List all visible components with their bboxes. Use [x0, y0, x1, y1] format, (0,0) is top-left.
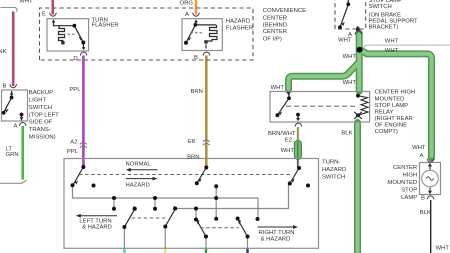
svg-text:CENTER HIGH: CENTER HIGH	[375, 90, 416, 96]
wire ORG (turn flasher E)	[51, 0, 54, 15]
svg-text:RIGHT TURN: RIGHT TURN	[258, 230, 294, 236]
svg-text:HAZARD: HAZARD	[126, 183, 150, 189]
svg-text:CENTER: CENTER	[263, 29, 287, 35]
backup light switch box	[2, 90, 28, 121]
svg-text:BRACKET): BRACKET)	[369, 24, 399, 30]
svg-text:BLK: BLK	[420, 210, 431, 216]
svg-text:OF ENGINE: OF ENGINE	[375, 123, 407, 129]
svg-text:B: B	[194, 55, 198, 61]
svg-text:A2: A2	[70, 140, 77, 146]
turn flasher U? box	[47, 19, 89, 51]
terminal cup A (backup)	[19, 122, 26, 126]
node contact S1 tip	[133, 207, 137, 211]
turn flasher internals	[54, 21, 84, 49]
splice X at coil bottom	[354, 112, 362, 119]
svg-text:(TOP LEFT: (TOP LEFT	[29, 112, 59, 118]
node contact mid lower	[214, 217, 218, 221]
terminal cup B (hazard)	[203, 52, 210, 56]
svg-text:E2: E2	[285, 138, 292, 144]
svg-text:WHT: WHT	[338, 38, 352, 44]
terminal cup D	[80, 52, 87, 56]
svg-text:BLK: BLK	[341, 131, 352, 137]
svg-text:WHT: WHT	[271, 85, 285, 91]
svg-text:WHT: WHT	[436, 246, 450, 252]
svg-text:A: A	[14, 124, 18, 130]
CHMSL relay box	[270, 92, 370, 123]
blade S1	[124, 210, 134, 227]
rail1 tap stubs	[114, 198, 155, 209]
wire PNK	[12, 12, 15, 87]
svg-text:SIDE OF: SIDE OF	[29, 120, 53, 126]
svg-text:STOP LAMP: STOP LAMP	[375, 103, 409, 109]
wire WHT to right edge (top right)	[360, 45, 450, 49]
svg-text:(BEHIND: (BEHIND	[263, 23, 287, 29]
wire ORG (hazard flasher A)	[195, 0, 198, 15]
node junction rail1 tap1	[112, 196, 116, 200]
rail2	[175, 185, 288, 209]
svg-text:SWITCH: SWITCH	[369, 4, 392, 10]
svg-text:SWITCH: SWITCH	[29, 105, 52, 111]
turn-hazard switch box	[64, 159, 319, 249]
wire LT GRN	[21, 126, 24, 180]
svg-text:ORG: ORG	[180, 1, 194, 7]
svg-text:NORMAL: NORMAL	[126, 162, 152, 168]
dashed link S1-S2	[132, 217, 169, 219]
svg-text:MOUNTED: MOUNTED	[387, 180, 417, 186]
wire dk blue stub bottom	[246, 249, 248, 253]
node contact S4 target	[236, 217, 240, 221]
svg-text:& HAZARD: & HAZARD	[82, 225, 112, 231]
node junction rail2 tap	[194, 207, 198, 211]
node E2 blade lower contact	[288, 182, 292, 186]
wire BRN	[205, 56, 208, 168]
svg-text:RELAY: RELAY	[375, 109, 394, 115]
svg-text:HIGH: HIGH	[402, 172, 417, 178]
rail2 tap stub	[195, 209, 197, 220]
svg-text:E: E	[42, 12, 46, 18]
svg-text:PPL: PPL	[69, 87, 81, 93]
blade S2	[165, 210, 174, 226]
terminal cup E	[50, 13, 57, 17]
node contact S1 left	[112, 207, 116, 211]
svg-text:GRN: GRN	[6, 152, 19, 158]
svg-text:B: B	[421, 195, 425, 201]
node E2 input contact	[297, 166, 301, 170]
blade S3	[198, 222, 207, 237]
svg-text:BRN: BRN	[187, 154, 199, 160]
arrow RIGHT TURN	[258, 226, 295, 228]
svg-text:WHT: WHT	[19, 0, 33, 5]
svg-text:PNK: PNK	[0, 49, 7, 55]
svg-text:STOP: STOP	[401, 187, 417, 193]
terminal cup A (lamp)	[427, 159, 434, 163]
blade S4	[239, 222, 248, 237]
wire WHT leader top-left	[1, 8, 17, 12]
relay internals: switch	[277, 93, 289, 115]
convenience center dashed box	[40, 8, 254, 60]
wire green BLK from relay coil down	[354, 123, 361, 253]
center high mounted stop lamp box	[420, 163, 441, 195]
svg-text:CENTER: CENTER	[393, 165, 417, 171]
svg-text:B: B	[3, 84, 7, 90]
svg-text:TURN-: TURN-	[322, 160, 340, 166]
stop lamp switch dashed box	[335, 0, 366, 29]
junction dot (WHT splice)	[357, 47, 363, 53]
switch E2 blade	[290, 168, 299, 183]
svg-text:WHT: WHT	[343, 54, 357, 60]
svg-text:PPL: PPL	[67, 149, 79, 155]
node PPL blade lower contact	[71, 183, 75, 187]
node BRN blade lower contact	[195, 181, 199, 185]
wire green branch to right vertical / lamp	[360, 50, 432, 159]
connector E8 symbol	[203, 140, 210, 145]
svg-text:WHT: WHT	[343, 80, 357, 86]
wire teal stub bottom	[123, 249, 125, 253]
node pivot S1	[122, 225, 126, 229]
svg-text:BACKUP: BACKUP	[29, 90, 53, 96]
crossing vertical contact	[215, 186, 217, 219]
wire gray stub bottom-left	[0, 180, 27, 183]
E2 connector green pill	[294, 141, 301, 160]
svg-text:A: A	[185, 12, 189, 18]
terminal cup B (lamp)	[427, 196, 434, 200]
svg-text:CONVENIENCE: CONVENIENCE	[263, 8, 306, 14]
wire green stub bottom	[205, 249, 207, 253]
svg-text:WHT: WHT	[281, 148, 295, 154]
arrow HAZARD	[126, 178, 154, 180]
stop lamp switch internals	[340, 0, 358, 29]
svg-text:WHT: WHT	[385, 38, 399, 44]
wire from E2 into switch box	[297, 159, 299, 168]
svg-text:BRN: BRN	[191, 89, 203, 95]
svg-text:(RIGHT REAR: (RIGHT REAR	[375, 116, 413, 122]
svg-text:FLASHER: FLASHER	[226, 25, 253, 31]
terminal cup B (backup)	[10, 84, 17, 88]
node upper contact mid	[214, 184, 218, 188]
node pivot S2	[163, 225, 167, 229]
wire PPL	[82, 56, 85, 167]
node contact S2 tip rail2 end	[173, 207, 177, 211]
node pivot S4	[246, 235, 250, 239]
svg-text:A: A	[420, 153, 424, 159]
arrow NORMAL	[129, 169, 158, 171]
svg-text:HAZARD: HAZARD	[226, 19, 250, 25]
wire yellow stub bottom	[164, 249, 166, 253]
svg-text:COMPT): COMPT)	[375, 129, 398, 135]
hazard flasher box	[182, 19, 222, 51]
wire green diagonal branch to relay switch	[289, 62, 360, 90]
node BRN input contact	[204, 166, 208, 170]
svg-text:WHT: WHT	[385, 48, 399, 54]
svg-text:CENTER: CENTER	[263, 15, 287, 21]
junction/contact dots turn-hazard switch	[71, 165, 311, 239]
svg-text:D: D	[73, 56, 77, 62]
node contact rail1 drop	[256, 217, 260, 221]
svg-text:OF I/P): OF I/P)	[263, 36, 282, 42]
svg-text:LAMP: LAMP	[401, 195, 417, 201]
svg-text:& HAZARD: & HAZARD	[261, 236, 291, 242]
hazard flasher internals	[186, 21, 217, 49]
node contact S3 target	[194, 218, 198, 222]
pivot drop wires to box bottom	[124, 227, 247, 249]
relay middle terminal	[297, 115, 299, 120]
svg-text:WHT: WHT	[412, 145, 426, 151]
node open contact right	[306, 184, 310, 188]
wire BLK from lamp	[430, 200, 432, 253]
svg-text:MISSION): MISSION)	[29, 135, 56, 141]
svg-text:TRANS-: TRANS-	[29, 127, 51, 133]
terminal cup A (stop lamp switch)	[355, 31, 362, 35]
node junction rail1 tap2	[153, 196, 157, 200]
wire BRN/WHT pale	[296, 127, 300, 167]
arrow LEFT TURN	[79, 215, 117, 217]
lamp internals	[422, 170, 439, 187]
svg-text:MOUNTED: MOUNTED	[375, 97, 405, 103]
svg-text:SWITCH: SWITCH	[322, 175, 345, 181]
node hazard position contact	[92, 184, 96, 188]
backup switch internals	[4, 91, 22, 121]
rail1 with PPL feed stub	[73, 186, 259, 219]
switch PPL blade	[73, 167, 83, 185]
dashed link S3-S4	[200, 227, 239, 229]
node PPL input contact	[81, 165, 85, 169]
svg-text:FLASHER: FLASHER	[92, 23, 119, 29]
terminal cup A (hazard)	[193, 13, 200, 17]
main dashed selector line	[79, 174, 292, 176]
relay dashed link	[286, 105, 356, 107]
svg-text:E8: E8	[188, 139, 196, 145]
wire WHT highlighted green: stop lamp switch to relay coil	[289, 33, 432, 253]
switch BRN blade	[197, 168, 206, 184]
connector A2 symbol	[80, 143, 87, 148]
svg-text:HAZARD: HAZARD	[322, 167, 346, 173]
node contact S2 left	[153, 207, 157, 211]
relay coil	[358, 96, 368, 116]
node pivot S3	[204, 235, 208, 239]
svg-text:LIGHT: LIGHT	[29, 98, 47, 104]
node junction rail1 cross	[214, 196, 218, 200]
svg-text:BRN/WHT: BRN/WHT	[268, 131, 296, 137]
